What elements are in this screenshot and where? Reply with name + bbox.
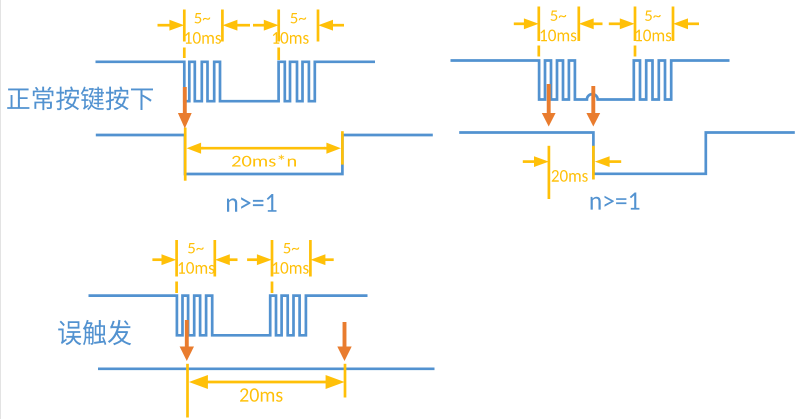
left page edge line	[0, 0, 2, 419]
dim line of 20ms (d3)	[207, 381, 327, 384]
dimension tick 1 (d2)	[537, 7, 540, 42]
text 20ms (d2)	[552, 170, 588, 182]
text n>=1 (d2)	[591, 193, 640, 210]
text 10ms (d2 set1)	[541, 30, 577, 42]
dim arrow right (d2 set2 left)	[609, 18, 635, 29]
dim arrow right toward 20ms left tick (d2)	[523, 156, 549, 167]
leader stub under tick1 (d3)	[175, 282, 178, 294]
text 5~ (d3 set2)	[284, 243, 300, 253]
dim arrow right (d3 set1 left)	[152, 254, 176, 265]
wire: output stays flat (bottom)	[98, 367, 435, 370]
dim arrow right (d1 set1 left)	[158, 20, 185, 31]
text 20ms*n	[232, 155, 296, 167]
text n>=1 (d1)	[227, 194, 277, 212]
dimension tick 1 (d3)	[175, 240, 178, 277]
red trigger arrow 2 (d2)	[586, 86, 600, 127]
red trigger arrow 2 (d3)	[337, 322, 351, 361]
dim tick left of 20ms (d3)	[186, 364, 189, 418]
dim arrow left (d1 set1 right)	[223, 20, 250, 31]
label text 正常按键按下	[7, 87, 153, 111]
dim arrow left head of 20ms*n	[187, 143, 204, 154]
text 20ms (d3)	[240, 388, 283, 402]
leader stub under tick1 (d2)	[537, 46, 540, 57]
wire: debounced output signal (top-left)	[96, 135, 433, 174]
dim arrow left (d3 set1 right)	[215, 254, 238, 265]
dimension tick 1 (d1)	[183, 10, 186, 42]
text 5~ (d3 set1)	[188, 243, 204, 253]
dim arrow right head 20ms (d3)	[326, 375, 345, 389]
text 5~ (d1 set2)	[291, 13, 307, 23]
wire: output signal 20ms pulse (top-right)	[459, 133, 795, 174]
dimension tick 3 (d2)	[634, 7, 637, 42]
dim line of 20ms*n	[202, 147, 325, 150]
dim arrow left head 20ms (d3)	[189, 375, 208, 389]
wire: raw key signal with bounce (top-right)	[451, 61, 730, 100]
text 10ms (d3 set2)	[273, 262, 309, 274]
dim arrow left toward 20ms right tick (d2)	[595, 156, 621, 167]
dim tick left of 20ms*n	[184, 128, 187, 181]
dimension tick 3 (d3)	[271, 240, 274, 277]
dimension tick 2 (d1)	[221, 10, 224, 42]
text 5~ (d1 set1)	[195, 13, 211, 23]
dim tick right of 20ms (d2) overlay on falling edge	[592, 146, 595, 180]
text 10ms (d2 set2)	[636, 30, 672, 42]
text 10ms (d3 set1)	[179, 262, 215, 274]
dim arrow left (d3 set2 right)	[311, 254, 334, 265]
dim tick right of 20ms*n	[341, 131, 344, 164]
text 5~ (d2 set2)	[645, 11, 661, 21]
red trigger arrow 1 (d3)	[180, 320, 194, 361]
dim arrow left (d2 set2 right)	[673, 18, 699, 29]
dimension tick 4 (d2)	[672, 7, 675, 42]
label text 误触发	[58, 320, 131, 345]
wire: raw key signal with bounce (bottom)	[89, 296, 368, 336]
dim arrow left (d1 set2 right)	[318, 20, 344, 31]
dimension tick 2 (d3)	[213, 240, 216, 277]
dim arrow right (d3 set2 left)	[247, 254, 272, 265]
text 5~ (d2 set1)	[551, 11, 567, 21]
dimension tick 3 (d1)	[277, 10, 280, 42]
wire: raw key signal with bounce (top-left)	[96, 62, 376, 101]
leader stub under tick3 (d2)	[634, 46, 637, 57]
dim tick right of 20ms (d3)	[344, 364, 347, 398]
leader stub under tick3 (d1)	[277, 48, 280, 61]
dimension tick 4 (d3)	[309, 240, 312, 277]
red trigger arrow 1 (d2)	[542, 84, 556, 127]
dimension tick 4 (d1)	[317, 10, 320, 42]
red trigger arrow (d1)	[178, 87, 192, 129]
dim arrow right (d1 set2 left)	[253, 20, 279, 31]
dim tick left of 20ms (d2)	[548, 146, 551, 199]
leader stub under tick1 (d1)	[183, 48, 186, 59]
dimension tick 2 (d2)	[577, 7, 580, 42]
dim arrow right head of 20ms*n	[324, 143, 341, 154]
leader stub under tick3 (d3)	[271, 282, 274, 294]
dim arrow left (d2 set1 right)	[579, 18, 603, 29]
dim arrow right (d2 set1 left)	[514, 18, 539, 29]
text 10ms (d1 set1)	[185, 32, 221, 44]
text 10ms (d1 set2)	[273, 32, 309, 44]
